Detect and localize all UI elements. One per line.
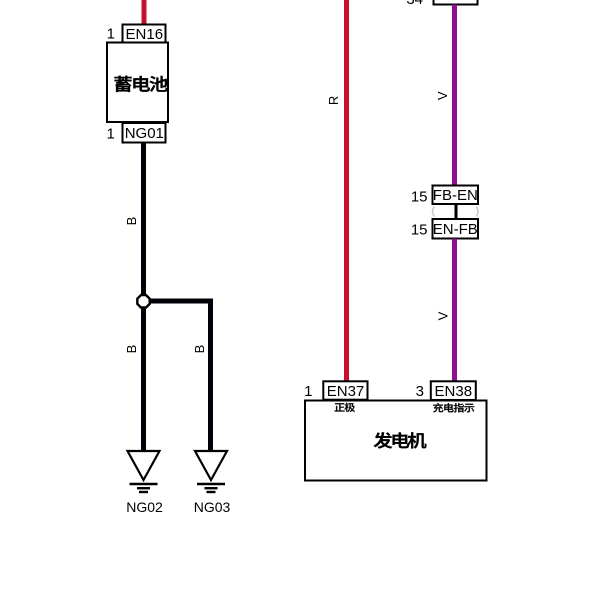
terminal label 充电指示 (charge indicator) — [433, 403, 474, 412]
svg-text:V: V — [436, 311, 451, 320]
connector FB-EN — [433, 186, 479, 205]
connector EN37 — [323, 381, 367, 400]
svg-text:EN38: EN38 — [435, 383, 473, 400]
wire: purple V upper segment — [452, 5, 457, 187]
svg-text:B: B — [124, 217, 139, 226]
ground symbol NG02 — [128, 451, 160, 492]
svg-text:NG02: NG02 — [126, 499, 163, 515]
svg-text:34: 34 — [406, 0, 423, 8]
svg-text:NG01: NG01 — [125, 125, 164, 142]
svg-text:1: 1 — [106, 125, 114, 142]
svg-text:FB-EN: FB-EN — [433, 187, 478, 204]
wire: black branch from junction to ground NG03 — [144, 301, 211, 452]
wire: purple V lower segment — [452, 239, 457, 383]
inline connector link between FB-EN and EN-FB — [433, 204, 479, 219]
connector EN-FB — [433, 219, 479, 239]
svg-text:B: B — [124, 345, 139, 354]
svg-text:B: B — [192, 345, 207, 354]
battery label 蓄电池 — [115, 76, 168, 92]
svg-text:NG03: NG03 — [194, 499, 231, 515]
ground symbol NG03 — [195, 451, 227, 492]
generator label 发电机 — [374, 432, 426, 448]
wire: red battery feed into EN16 — [142, 0, 147, 26]
connector EN16 — [123, 25, 166, 44]
svg-text:15: 15 — [411, 189, 428, 206]
junction node splice — [137, 295, 149, 307]
terminal label 正极 (positive) — [335, 403, 355, 412]
connector EN38 — [431, 381, 476, 400]
svg-text:EN37: EN37 — [327, 383, 365, 400]
connector NG01 — [123, 123, 166, 143]
wire: black ground lead B from NG01 to ground NG02 — [141, 143, 146, 453]
svg-text:3: 3 — [416, 383, 424, 400]
svg-text:1: 1 — [304, 383, 312, 400]
generator box — [305, 401, 487, 481]
battery box — [107, 43, 168, 123]
svg-text:EN-FB: EN-FB — [433, 221, 478, 238]
svg-text:15: 15 — [411, 222, 428, 239]
svg-text:R: R — [326, 96, 341, 105]
svg-text:V: V — [435, 91, 450, 100]
connector box at top edge (partial) — [434, 0, 478, 5]
svg-text:EN16: EN16 — [126, 26, 164, 43]
wire: red R from top to EN37 — [344, 0, 349, 382]
svg-text:1: 1 — [107, 26, 115, 43]
